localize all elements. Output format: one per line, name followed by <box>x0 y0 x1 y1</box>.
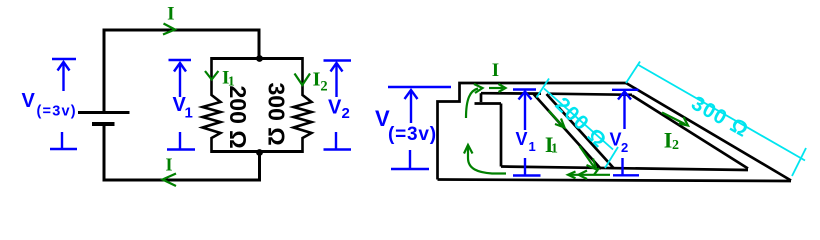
svg-text:(=3v): (=3v) <box>388 124 437 145</box>
svg-text:I: I <box>165 155 172 175</box>
svg-text:V: V <box>610 130 622 150</box>
svg-text:I: I <box>167 4 174 25</box>
svg-text:2: 2 <box>672 138 679 153</box>
svg-text:I: I <box>492 60 499 81</box>
svg-text:V: V <box>328 97 342 119</box>
svg-text:200 Ω: 200 Ω <box>225 86 251 149</box>
svg-text:1: 1 <box>551 142 558 157</box>
svg-text:V: V <box>22 90 36 112</box>
svg-text:V: V <box>516 129 528 149</box>
svg-text:2: 2 <box>342 105 350 122</box>
svg-text:(=3v): (=3v) <box>37 104 77 120</box>
svg-text:2: 2 <box>621 140 628 155</box>
svg-text:I: I <box>664 128 673 153</box>
svg-text:2: 2 <box>320 79 327 95</box>
svg-text:300 Ω: 300 Ω <box>264 83 290 146</box>
svg-text:1: 1 <box>529 139 536 154</box>
svg-text:1: 1 <box>185 105 193 122</box>
svg-text:1: 1 <box>228 75 235 90</box>
